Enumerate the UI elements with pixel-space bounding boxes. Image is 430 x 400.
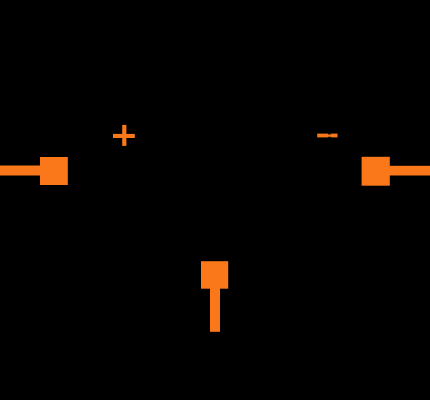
label - (negative polarity mark) [317,134,337,138]
pad P$2 (negative terminal square pin) [362,157,390,186]
label + (positive polarity mark) [113,125,135,146]
pad P$1 (positive terminal square pin) [40,157,68,185]
wire: left pin stub to positive terminal [0,166,41,176]
wire: right pin stub to negative terminal [390,166,430,176]
wire: bottom pin stub [210,288,220,332]
pad P$3 (bottom terminal square pin) [201,261,228,289]
